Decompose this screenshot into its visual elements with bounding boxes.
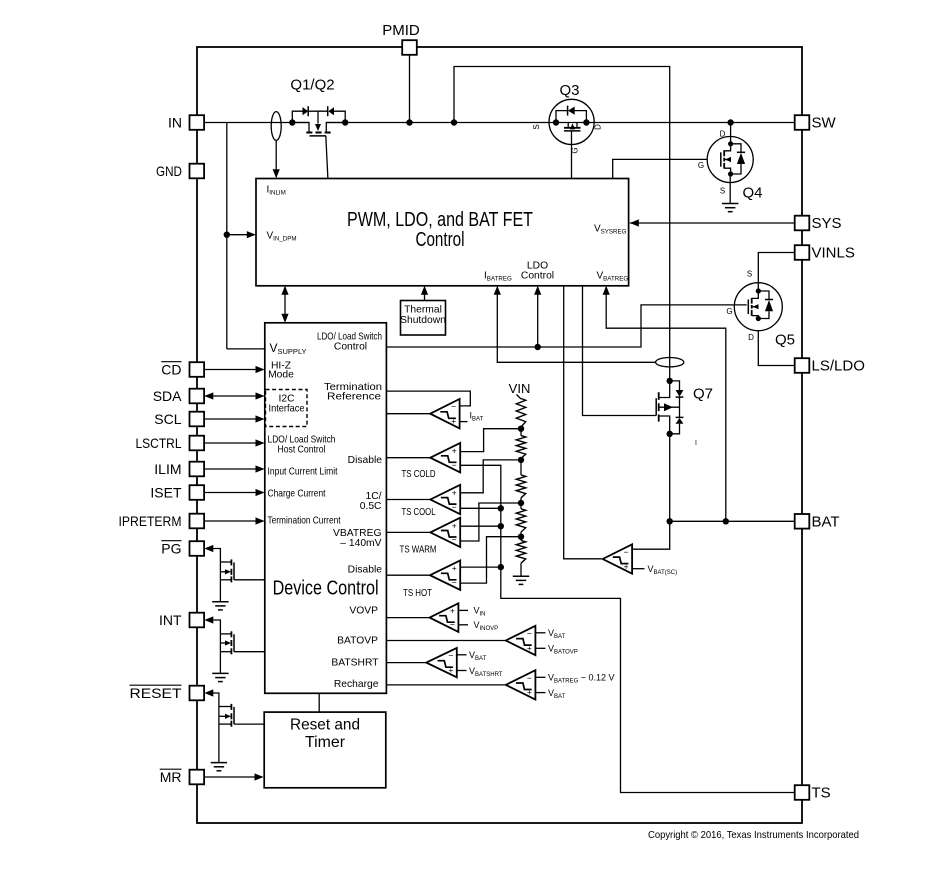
svg-text:−: − [452,577,457,587]
svg-text:Host Control: Host Control [278,445,326,456]
wire U9 output to Device Control (Recharge) [386,684,505,686]
wire U8 plus stub [457,670,467,672]
wire LSCTRL to Device Control [204,442,263,444]
wire INT FET gate from block [234,651,265,653]
wire IN rail left segment [204,122,309,124]
wire V_IN_DPM arrow into PWM [227,234,255,236]
IC boundary frame [197,47,802,823]
pin RESET [130,685,205,701]
block U3 Reset and Timer [264,712,386,788]
svg-text:Charge Current: Charge Current [268,489,326,500]
wire LDO Control branch to PWM [537,287,539,347]
pin SCL [154,411,204,427]
wire VIN label to ladder [517,395,522,400]
junction tap B [518,457,524,463]
svg-text:VOVP: VOVP [349,606,378,617]
junction Q1/Q2 drain on IN rail [342,119,348,125]
svg-text:Q4: Q4 [742,185,762,202]
wire RESET pin pull-down [204,689,213,696]
wire BAT rail [670,520,795,522]
wire TS HOT minus to tap D [460,537,521,583]
svg-text:S: S [720,187,725,196]
svg-text:TS HOT: TS HOT [403,588,433,599]
wire U4 output to Device Control (VBATREG-140mV) [386,531,430,533]
svg-text:Q5: Q5 [775,332,795,349]
svg-text:+: + [450,606,455,616]
junction V_IN_DPM branch [224,232,230,238]
comparator U3 TS COOL [430,485,460,514]
svg-text:−: − [527,673,532,683]
wire Q7 source down to BAT rail and V_BAT(SC) input [632,434,670,549]
svg-text:ISET: ISET [150,485,182,501]
wire IN sense branch down left side [226,123,228,349]
svg-text:Thermal: Thermal [404,305,442,316]
wire PG pin pull-down [204,545,213,552]
svg-text:PMID: PMID [382,22,420,39]
comparator U1 termination reference / I_BAT [430,399,459,428]
svg-text:Disable: Disable [348,455,383,466]
wire TS COOL plus to tap B [460,460,521,493]
junction Q3 drain dot [583,119,589,125]
wire SYS to PWM V_SYSREG [630,222,795,224]
pin PMID [382,22,420,55]
wire IN rail right segment through Q3 to SW [326,122,794,124]
wire Q4 gate from PWM block [613,159,708,178]
wire Thermal Shutdown to PWM block [424,288,426,301]
junction Q7 column at BAT rail [667,518,673,524]
svg-text:D: D [720,130,726,139]
svg-text:Mode: Mode [268,370,294,381]
wire U8 minus stub [457,654,467,656]
wire U6 plus stub [458,609,468,611]
svg-text:0.5C: 0.5C [360,501,382,512]
transistor Q3 (BAT FET) in circle [549,99,594,144]
comparator U10 V_BAT(SC) [603,544,632,573]
pin SW [795,115,837,132]
resistor R1 [516,399,525,428]
resistor R5 [516,540,525,563]
svg-text:S: S [747,270,752,279]
wire Termination Reference to U1 minus [386,391,470,406]
wire U8 output to Device Control (BATSHRT) [386,662,426,664]
svg-text:+: + [452,563,457,573]
svg-text:LS/LDO: LS/LDO [812,358,865,375]
pin IPRETERM [119,513,205,529]
block Thermal Shutdown [400,301,446,336]
wire CD to Device Control [204,369,263,371]
junction Q3 source dot [553,119,559,125]
wire ILIM to Device Control [204,468,263,470]
pin ILIM [154,461,204,477]
svg-text:Disable: Disable [348,565,383,576]
wire U7 minus stub [535,632,545,634]
wire U5 output to Device Control (Disable) [386,574,430,576]
wire Q5 drain to LS/LDO [758,331,794,366]
wire TS to TS HOT plus [460,566,501,568]
transistor Q4 in circle [707,137,753,183]
svg-text:BAT: BAT [812,514,840,531]
wire VINLS to Q5 source [758,253,794,283]
svg-text:+: + [448,665,453,675]
wire U3 output to Device Control (1C/0.5C) [386,499,430,501]
pin VINLS [795,245,855,262]
comparator U2 TS COLD [430,443,460,472]
junction TS to TS COOL minus [498,505,504,511]
pin ISET [150,485,204,501]
svg-text:Q3: Q3 [559,82,579,99]
resistor R4 [516,509,525,532]
svg-text:−: − [451,402,456,412]
transistor RESET open-drain NMOS [219,704,234,727]
svg-text:Control: Control [416,229,465,251]
svg-text:LSCTRL: LSCTRL [136,435,182,451]
transistor Q7 (battery FET) [656,381,683,434]
svg-text:IPRETERM: IPRETERM [119,513,182,529]
wire R1 to tap A [520,427,522,429]
wire tap B to R3 [520,458,522,475]
wire U1 output to Device Control [386,413,430,415]
wire TS COLD plus to tap A [460,429,521,452]
comparator U6 VOVP [430,603,459,632]
svg-text:+: + [451,416,456,426]
wire SW rail down to Q4 drain [730,123,732,144]
svg-text:+: + [624,561,629,571]
svg-text:+: + [452,520,457,530]
svg-text:ILIM: ILIM [154,461,181,477]
comparator U9 Recharge [506,670,536,699]
svg-text:Input Current Limit: Input Current Limit [268,467,338,478]
wire TS pin to comparator network [460,465,795,792]
svg-text:Reference: Reference [327,392,381,403]
svg-text:G: G [726,307,732,316]
pin SDA [153,388,204,404]
wire SCL to Device Control [204,418,263,420]
wire V_SUPPLY into Device Control [227,348,265,350]
wire INT pin pull-down [204,616,213,623]
svg-text:+: + [452,487,457,497]
wire MR to Reset and Timer [204,776,262,778]
svg-text:PG: PG [161,541,181,557]
svg-text:MR: MR [160,769,182,785]
pin MR [160,769,204,785]
current sense ellipse on Q7 battery path [656,358,684,367]
wire SDA to Device Control [204,395,263,397]
svg-text:D: D [748,333,754,342]
svg-text:+: + [527,643,532,653]
wire I_BATREG sense from battery current ellipse [497,287,655,362]
ground (INT FET source) [212,672,228,674]
resistor R2 [516,436,525,459]
junction Q7 source dot [667,431,673,437]
svg-text:GND: GND [156,163,182,179]
wire R5 to ground [520,563,522,576]
resistor R3 [516,475,525,498]
svg-text:D: D [594,124,603,130]
junction tap C [518,500,524,506]
svg-text:Timer: Timer [305,734,346,751]
wire Q4 source to ground [729,174,731,204]
wire TS to TS WARM plus [460,525,501,527]
wire PMID to IN rail [409,55,411,123]
svg-text:BATOVP: BATOVP [337,636,378,647]
wire LDO/Load Switch Control net [386,305,746,347]
block U2 Device Control [265,323,387,694]
svg-text:– 140mV: – 140mV [340,538,381,549]
junction TS to TS HOT plus [498,564,504,570]
svg-text:Q1/Q2: Q1/Q2 [290,77,334,94]
junction tap D [518,534,524,540]
transistor Q1/Q2 (back-to-back input FETs) [292,106,345,136]
svg-text:SYS: SYS [812,215,842,232]
wire Q1/Q2 gate to PWM block [326,136,328,179]
wire U2 output to Device Control (Disable) [386,457,430,459]
svg-text:−: − [624,547,629,557]
junction TS to TS WARM plus [498,523,504,529]
pin IN [168,115,204,131]
svg-text:−: − [450,620,455,630]
comparator U8 BATSHRT [426,648,457,677]
svg-text:INT: INT [159,612,182,628]
current sense ellipse on IN (input current) [271,112,281,141]
wire PG FET gate from block [234,579,265,581]
wire RESET FET gate from block [234,723,264,725]
svg-text:VIN: VIN [509,381,531,396]
svg-text:−: − [527,628,532,638]
svg-text:Q7: Q7 [693,386,713,403]
ground (ladder) [513,575,529,577]
pin GND [156,163,204,179]
comparator U5 TS HOT [430,561,460,590]
wire U6 minus stub [458,624,468,626]
wire V_BAT(SC) comparator output to PWM [564,286,602,559]
transistor Q5 (load switch) in circle [734,283,782,331]
wire TS WARM minus to tap C [460,503,521,541]
wire V_BAT(SC) + input stub [632,568,644,570]
wire U9 plus stub [535,692,545,694]
wire R4 to tap D [520,532,522,540]
svg-text:Recharge: Recharge [334,679,379,690]
wire Q3 gate to PWM block [571,131,573,179]
svg-text:VINLS: VINLS [812,245,855,262]
wire input current sense to I_INLIM with arrow [275,140,277,177]
svg-text:Interface: Interface [269,404,305,415]
pin SYS [795,215,842,232]
svg-text:Shutdown: Shutdown [400,315,446,326]
junction Q7 drain dot [667,378,673,384]
svg-text:PWM, LDO, and BAT FET: PWM, LDO, and BAT FET [347,209,533,231]
comparator U4 TS WARM [430,518,460,547]
junction tap A [518,426,524,432]
junction Q1/Q2 source on IN rail [289,119,295,125]
ground (PG FET source) [212,601,228,603]
wire U7 plus stub [535,647,545,649]
ground (RESET FET source) [211,762,227,764]
pin TS [795,785,831,802]
svg-text:+: + [452,446,457,456]
svg-text:−: − [448,651,453,661]
wire Device Control to Reset and Timer [318,693,320,712]
svg-text:+: + [527,687,532,697]
svg-text:Device Control: Device Control [273,578,379,600]
svg-text:SDA: SDA [153,388,182,404]
wire U7 output to Device Control (BATOVP) [386,640,505,642]
svg-text:I: I [695,440,697,447]
wire PMID rail riser to Q7 column [454,67,670,381]
svg-text:TS COOL: TS COOL [402,507,436,518]
svg-text:Control: Control [521,271,554,282]
svg-text:−: − [452,535,457,545]
wire R2 to tap B [520,429,522,436]
wire PWM-DeviceControl bidirectional arrow [284,287,286,321]
svg-text:TS: TS [812,785,831,802]
svg-text:TS WARM: TS WARM [400,545,437,556]
transistor INT open-drain NMOS [220,631,234,654]
svg-text:IN: IN [168,115,182,131]
wire Q7 gate from PWM [583,286,657,416]
svg-text:−: − [452,460,457,470]
ground (Q4 source) [722,203,738,205]
wire U9 minus stub [535,676,545,678]
wire R3 to tap C [520,498,522,509]
svg-text:−: − [452,502,457,512]
svg-text:Reset and: Reset and [290,717,360,734]
svg-text:G: G [698,161,704,170]
wire ISET to Device Control [204,492,263,494]
wire TS to TS COOL minus [460,507,501,509]
wire IPRETERM to Device Control [204,520,263,522]
junction SW rail to Q4 [727,119,733,125]
pin CD (active low) [161,362,204,378]
wire V_BATREG sense from BAT [606,287,726,521]
pin INT [159,612,204,628]
pin PG [161,541,204,557]
svg-text:S: S [532,124,541,129]
pin BAT [795,514,840,531]
svg-text:Copyright © 2016, Texas Instru: Copyright © 2016, Texas Instruments Inco… [648,829,859,841]
svg-text:Termination Current: Termination Current [268,516,341,527]
pin LSCTRL [136,435,205,451]
comparator U7 BATOVP [506,626,536,655]
block I2C Interface (dashed) [266,390,308,427]
svg-text:SW: SW [812,115,837,132]
svg-text:Control: Control [334,342,367,353]
block U1 PWM, LDO, and BAT FET Control [256,179,629,286]
wire U6 output to Device Control (VOVP) [386,617,429,619]
svg-text:RESET: RESET [130,685,182,701]
svg-text:TS COLD: TS COLD [402,469,436,480]
pin LS/LDO [795,358,865,375]
junction V_BATREG column at BAT rail [723,518,729,524]
svg-text:CD: CD [161,362,181,378]
wire U1 plus stub [460,421,468,423]
transistor PG open-drain NMOS [220,559,234,582]
svg-text:SCL: SCL [154,411,181,427]
junction LDO control branch [535,344,541,350]
svg-text:BATSHRT: BATSHRT [331,658,379,669]
